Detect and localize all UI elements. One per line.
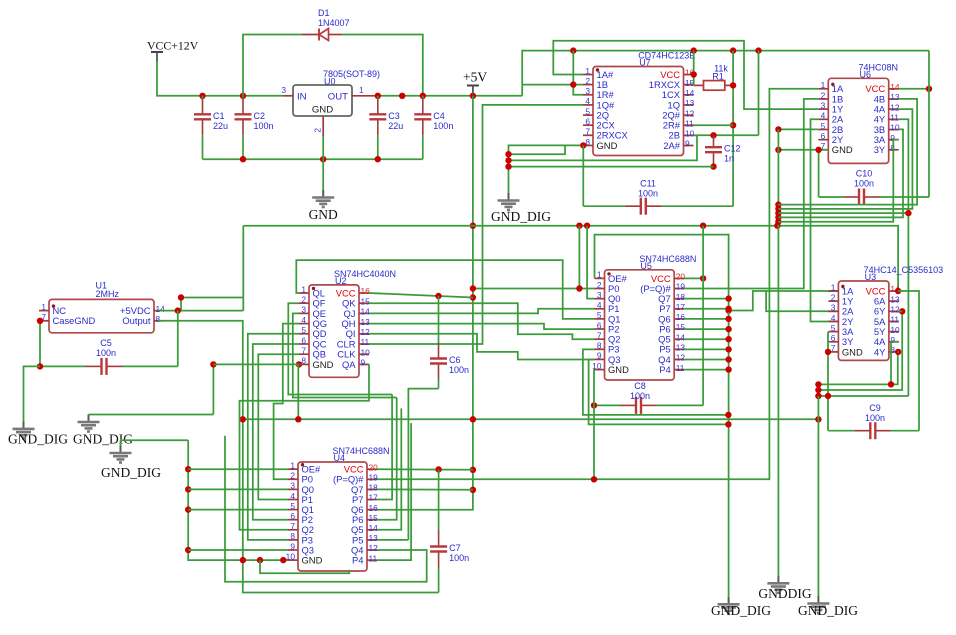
wire U3 VCC to C9 right	[898, 291, 919, 431]
junction	[240, 156, 246, 162]
svg-text:13: 13	[361, 317, 371, 327]
svg-text:3: 3	[301, 305, 306, 315]
svg-text:12: 12	[676, 353, 686, 363]
svg-text:GND: GND	[313, 359, 334, 370]
pin 1 U0	[352, 95, 378, 97]
junction	[730, 47, 736, 53]
svg-text:1: 1	[831, 282, 836, 292]
wire U2 QA to U4 Q2	[240, 364, 370, 529]
svg-text:13: 13	[890, 294, 900, 304]
wire U5 right pin tie	[684, 359, 728, 361]
svg-text:3: 3	[597, 290, 602, 300]
junction	[815, 381, 821, 387]
svg-text:12: 12	[890, 102, 900, 112]
junction	[591, 402, 597, 408]
svg-text:2: 2	[301, 295, 306, 305]
IC U6 74HC08N	[828, 78, 888, 163]
wire U6 GND left	[778, 149, 828, 151]
pin 2 U0	[322, 116, 324, 136]
svg-text:8: 8	[301, 356, 306, 366]
junction	[691, 47, 697, 53]
svg-text:4Y: 4Y	[874, 346, 886, 357]
junction	[775, 219, 781, 225]
wire QI to U5 Q3	[369, 334, 595, 360]
wire U4 P5 stub link	[377, 539, 408, 541]
svg-text:3: 3	[821, 100, 826, 110]
wire U4 Q7 tie	[377, 488, 473, 490]
capacitor C9 100n	[828, 430, 854, 432]
capacitor C2 100n	[242, 96, 244, 99]
junction	[815, 416, 821, 422]
svg-text:16: 16	[676, 312, 686, 322]
ground GND	[322, 190, 324, 197]
junction	[725, 316, 731, 322]
junction	[775, 201, 781, 207]
wire gnd under U3 a	[818, 352, 897, 385]
wire D1 cathode	[342, 35, 423, 96]
junction	[470, 467, 476, 473]
svg-text:6: 6	[821, 131, 826, 141]
wire U4 Q3 tie	[188, 549, 288, 551]
svg-text:P4: P4	[659, 364, 670, 375]
junction	[755, 47, 761, 53]
svg-text:1: 1	[41, 302, 46, 312]
svg-text:2: 2	[821, 90, 826, 100]
wire U5 right pin tie	[684, 298, 728, 300]
wire U2 GND to gnd long bus	[297, 364, 299, 419]
junction	[725, 366, 731, 372]
svg-text:7: 7	[290, 521, 295, 531]
IC U4 SN74HC688N	[298, 462, 367, 571]
wire C10 gnd up	[818, 150, 820, 197]
IC U7 CD74HC123E	[593, 67, 684, 156]
capacitor C1 22u	[202, 96, 204, 99]
wire U5 right pin tie	[684, 328, 728, 330]
svg-text:13: 13	[369, 533, 379, 543]
junction	[700, 223, 706, 229]
svg-text:7: 7	[585, 127, 590, 137]
wire long gnd bus	[243, 418, 819, 420]
wire C6 to U4 P5 riser	[408, 389, 438, 540]
capacitor C6 100n	[438, 296, 440, 343]
svg-text:U6: U6	[860, 70, 872, 80]
svg-text:C1: C1	[213, 111, 225, 121]
wire U2 QG to U4 P0	[274, 324, 299, 480]
svg-text:2: 2	[585, 76, 590, 86]
capacitor C3 22u	[377, 96, 379, 99]
svg-text:C2: C2	[254, 111, 266, 121]
wire U2 VCC slant	[369, 293, 473, 298]
wire U4 P6 riser	[377, 398, 397, 520]
svg-text:11: 11	[361, 337, 370, 347]
wire U2 QE to U4 P6 riser	[293, 313, 397, 397]
resistor R1 11k	[694, 84, 704, 86]
junction	[210, 361, 216, 367]
svg-text:GND: GND	[608, 364, 629, 375]
junction C4 top	[420, 93, 426, 99]
wire U5 VCC	[684, 277, 703, 279]
svg-text:GND: GND	[312, 105, 333, 116]
svg-text:6: 6	[831, 333, 836, 343]
wire U1 +5VDC	[158, 310, 243, 312]
svg-text:14: 14	[156, 304, 166, 314]
junction	[185, 466, 191, 472]
svg-text:QA: QA	[342, 359, 356, 370]
wire 5V drop to 2B	[758, 51, 760, 136]
svg-text:5: 5	[821, 121, 826, 131]
junction	[775, 147, 781, 153]
wire C11 left lead up	[582, 145, 584, 206]
junction	[774, 223, 780, 229]
junction	[375, 156, 381, 162]
junction	[775, 206, 781, 212]
junction	[725, 326, 731, 332]
junction	[470, 285, 476, 291]
svg-text:10: 10	[685, 129, 695, 139]
wire U4 VCC row	[377, 468, 473, 471]
junction	[725, 306, 731, 312]
svg-text:13: 13	[890, 92, 900, 102]
wire U6 4A gnd wrap	[778, 109, 912, 209]
wire 5V to C10	[928, 51, 930, 197]
svg-text:11: 11	[676, 363, 685, 373]
svg-text:11: 11	[685, 118, 694, 128]
svg-text:14: 14	[685, 88, 695, 98]
svg-text:100n: 100n	[96, 348, 116, 358]
wire CaseGND down	[39, 321, 40, 367]
svg-text:2: 2	[597, 280, 602, 290]
junction	[470, 223, 476, 229]
wire U7 2B tie high	[694, 134, 759, 136]
svg-text:5: 5	[597, 310, 602, 320]
svg-text:9: 9	[597, 351, 602, 361]
wire 5V link col	[180, 298, 182, 311]
junction	[895, 288, 901, 294]
wire U4 OE#	[188, 468, 288, 470]
svg-text:100n: 100n	[865, 413, 885, 423]
wire U6 3B gnd wrap	[778, 129, 903, 217]
svg-text:10: 10	[890, 325, 900, 335]
wire U3 1A to loop	[729, 291, 839, 311]
junction	[700, 275, 706, 281]
svg-text:16: 16	[369, 503, 379, 513]
wire bus to U1 pin14	[242, 226, 244, 311]
junction	[37, 318, 43, 324]
svg-text:3Y: 3Y	[874, 144, 886, 155]
ground GND_DIG U7	[508, 193, 510, 200]
capacitor C12 1n	[713, 135, 715, 147]
svg-text:12: 12	[369, 543, 379, 553]
junction	[815, 387, 821, 393]
junction	[926, 86, 932, 92]
svg-text:100n: 100n	[449, 365, 469, 375]
wire U2 QB to U4 P1	[258, 354, 299, 499]
svg-text:12: 12	[890, 305, 900, 315]
svg-text:C12: C12	[724, 144, 741, 154]
wire U6 2B tie gnd	[778, 128, 818, 130]
wire 5V to U7 1R#	[573, 51, 583, 95]
svg-text:VCC+12V: VCC+12V	[147, 39, 199, 53]
svg-text:3: 3	[281, 85, 286, 95]
svg-text:2A#: 2A#	[663, 140, 680, 151]
svg-text:5: 5	[301, 325, 306, 335]
wire main GND column	[777, 129, 779, 575]
junction	[905, 210, 911, 216]
wire 5V link upper	[181, 297, 243, 299]
svg-text:4: 4	[585, 96, 590, 106]
svg-text:3: 3	[831, 303, 836, 313]
junction	[185, 547, 191, 553]
svg-text:9: 9	[290, 541, 295, 551]
svg-text:P4: P4	[352, 555, 363, 566]
svg-text:9: 9	[685, 139, 690, 149]
svg-text:100n: 100n	[854, 179, 874, 189]
svg-text:4: 4	[290, 491, 295, 501]
junction	[576, 285, 582, 291]
wire QJ to U5 P1	[369, 309, 595, 314]
svg-text:GND_DIG: GND_DIG	[8, 432, 68, 447]
junction	[505, 157, 511, 163]
wire U5 right pin tie	[684, 338, 728, 340]
svg-text:8: 8	[156, 314, 161, 324]
svg-text:2: 2	[313, 128, 323, 133]
junction	[470, 487, 476, 493]
svg-text:IN: IN	[297, 92, 307, 103]
junction	[296, 361, 302, 367]
svg-text:8: 8	[290, 531, 295, 541]
junction	[815, 147, 821, 153]
junction	[257, 557, 263, 563]
diode D1 1N4007	[302, 34, 319, 36]
wire U3 4Y stub tie	[898, 351, 899, 353]
wire to GND_DIG 1	[24, 366, 41, 421]
junction	[185, 486, 191, 492]
junction C3 top	[375, 93, 381, 99]
svg-text:20: 20	[676, 272, 686, 282]
svg-text:GND_DIG: GND_DIG	[798, 603, 858, 618]
junction C2 top	[240, 93, 246, 99]
svg-text:R1: R1	[712, 72, 724, 82]
wire U4 P4 riser	[377, 423, 411, 560]
svg-text:100n: 100n	[433, 121, 453, 131]
IC U3 74HC14_C5356103	[838, 281, 889, 360]
svg-text:16: 16	[361, 286, 371, 296]
svg-text:GND: GND	[302, 555, 323, 566]
wire U5 P3 tie	[583, 349, 729, 415]
wire gnd to GND_DIG 2	[89, 414, 214, 416]
wire U3 4A gnd riser	[891, 342, 899, 385]
junction	[178, 294, 184, 300]
svg-text:3: 3	[585, 86, 590, 96]
svg-text:17: 17	[676, 302, 686, 312]
junction	[576, 223, 582, 229]
svg-text:C8: C8	[634, 381, 646, 391]
svg-text:7: 7	[597, 331, 602, 341]
power flag +5V	[467, 85, 479, 87]
svg-text:U2: U2	[335, 276, 347, 286]
wire under loop to U4 Q4	[225, 436, 427, 582]
junction	[280, 557, 286, 563]
svg-text:Output: Output	[122, 315, 151, 326]
junction	[775, 126, 781, 132]
svg-text:14: 14	[369, 523, 379, 533]
ground GND_DIG 3	[120, 446, 122, 453]
svg-text:15: 15	[676, 322, 686, 332]
svg-text:4: 4	[821, 111, 826, 121]
wire U4 P=Q to U6 1A	[377, 89, 818, 480]
svg-text:17: 17	[369, 493, 379, 503]
wire U7 2A# C12 gnd wrap	[509, 166, 714, 168]
wire R1 C11 vertical	[732, 51, 734, 207]
svg-text:GND_DIG: GND_DIG	[711, 603, 771, 618]
junction	[505, 151, 511, 157]
svg-text:1: 1	[821, 80, 826, 90]
junction	[710, 163, 716, 169]
wire 5V to U7 1B	[522, 84, 583, 86]
wire QK to U5 Q2	[369, 303, 595, 339]
wire U1 Output col C7 return	[158, 321, 438, 593]
junction	[775, 214, 781, 220]
svg-text:7: 7	[301, 346, 306, 356]
svg-text:C7: C7	[449, 543, 461, 553]
capacitor C5 100n	[40, 365, 86, 367]
svg-text:6: 6	[585, 117, 590, 127]
wire 4Y wrap row	[778, 212, 908, 214]
svg-text:100n: 100n	[630, 391, 650, 401]
junction	[240, 557, 246, 563]
svg-text:+5V: +5V	[463, 70, 487, 85]
svg-text:U7: U7	[639, 58, 651, 68]
svg-text:C9: C9	[869, 403, 881, 413]
wire U4 Q0 tie	[188, 488, 288, 490]
svg-text:5: 5	[290, 501, 295, 511]
svg-text:U3: U3	[865, 272, 877, 282]
svg-text:CaseGND: CaseGND	[53, 315, 96, 326]
svg-text:15: 15	[361, 296, 371, 306]
svg-text:7: 7	[831, 343, 836, 353]
wire gnd rail bottom	[203, 158, 423, 160]
wire U3 2A tie	[766, 291, 838, 311]
capacitor C4 100n	[422, 96, 424, 99]
svg-text:4: 4	[597, 300, 602, 310]
wire U7 2B wrap	[509, 135, 698, 160]
IC U5 SN74HC688N	[605, 270, 675, 380]
svg-text:1: 1	[597, 270, 602, 280]
wire U6 4Y col down	[899, 119, 909, 396]
svg-text:6: 6	[301, 335, 306, 345]
wire U2 QD to U4 P3	[248, 334, 299, 540]
wire U4 under loop a	[260, 560, 349, 573]
wire U7 wrap a	[509, 146, 566, 155]
svg-text:1: 1	[585, 66, 590, 76]
junction	[470, 416, 476, 422]
svg-text:U5: U5	[640, 261, 652, 271]
svg-text:2: 2	[831, 292, 836, 302]
svg-text:GND_DIG: GND_DIG	[101, 465, 161, 480]
junction	[725, 421, 731, 427]
junction	[175, 307, 181, 313]
svg-text:14: 14	[890, 82, 900, 92]
junction	[899, 308, 905, 314]
wire U5 right pin tie	[684, 318, 728, 320]
pin 3 U0	[284, 95, 294, 97]
junction	[895, 349, 901, 355]
wire U5 Q3 tie	[589, 360, 729, 425]
junction	[435, 293, 441, 299]
wire gnd under U3 c	[818, 395, 908, 397]
junction +5V flag	[470, 93, 476, 99]
svg-text:14: 14	[676, 332, 686, 342]
svg-text:13: 13	[685, 98, 695, 108]
wire U5 GND col down	[593, 370, 596, 480]
wire 5V rail	[378, 95, 522, 97]
svg-text:C6: C6	[449, 355, 461, 365]
junction	[295, 416, 301, 422]
svg-text:U4: U4	[334, 453, 346, 463]
junction	[730, 122, 736, 128]
wire U2 QL to U5 Q1	[296, 260, 594, 319]
wire U5 right pin tie	[684, 369, 728, 371]
svg-text:22u: 22u	[213, 121, 228, 131]
svg-text:8: 8	[597, 341, 602, 351]
wire 5V top bus	[522, 51, 929, 96]
svg-text:20: 20	[369, 462, 379, 472]
wire 5V main drop to U4 pin16	[377, 96, 473, 510]
svg-text:C3: C3	[388, 111, 400, 121]
svg-text:19: 19	[369, 473, 379, 483]
junction	[570, 47, 576, 53]
svg-text:9: 9	[361, 358, 366, 368]
junction	[725, 307, 731, 313]
junction	[37, 363, 43, 369]
ground GND_DIG 4	[728, 597, 730, 604]
svg-text:100n: 100n	[449, 553, 469, 563]
junction	[320, 156, 326, 162]
svg-text:OUT: OUT	[328, 92, 348, 103]
svg-text:10: 10	[361, 347, 371, 357]
junction	[730, 82, 736, 88]
wire U3 3A GND col	[827, 332, 829, 431]
junction	[691, 71, 697, 77]
junction	[240, 416, 246, 422]
svg-text:1N4007: 1N4007	[318, 18, 350, 28]
wire U2 GND to gnd link	[212, 364, 214, 414]
wire U4 OE gnd col	[188, 440, 288, 560]
wire U4 Q1 tie	[188, 509, 288, 511]
ground GND_DIG 6	[817, 596, 819, 603]
junction	[580, 142, 586, 148]
svg-text:GND: GND	[832, 144, 853, 155]
wire mid bus	[243, 226, 898, 291]
junction	[435, 466, 441, 472]
wire U2 QC to U4 P2	[253, 344, 299, 520]
junction	[584, 223, 590, 229]
svg-text:C10: C10	[856, 169, 873, 179]
wire U5 P=Q to U6 1B	[684, 99, 818, 289]
wire GND_DIG 3 drop	[120, 440, 122, 445]
junction	[505, 163, 511, 169]
svg-text:1n: 1n	[724, 154, 734, 164]
svg-text:22u: 22u	[388, 121, 403, 131]
wire U6 VCC	[899, 88, 929, 90]
ground GNDDIG	[777, 576, 779, 583]
junction	[591, 476, 597, 482]
wire to GND	[322, 159, 324, 190]
svg-text:C11: C11	[640, 179, 656, 189]
svg-text:12: 12	[361, 327, 371, 337]
wire to GND_DIG 3	[121, 439, 189, 441]
svg-text:GND_DIG: GND_DIG	[73, 432, 133, 447]
